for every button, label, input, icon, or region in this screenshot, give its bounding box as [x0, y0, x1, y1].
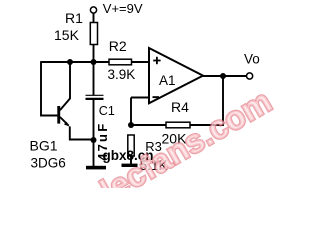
capacitor C1 plate 2	[86, 98, 104, 100]
svg-text:A1: A1	[159, 73, 176, 88]
resistor R3	[128, 135, 134, 156]
svg-text:V+=9V: V+=9V	[103, 1, 143, 16]
transistor BG1 emitter with arrow	[60, 117, 68, 125]
svg-text:R1: R1	[65, 10, 83, 26]
wire R1 to bus	[93, 45, 95, 63]
svg-text:Vo: Vo	[244, 51, 260, 66]
op-amp A1	[149, 48, 203, 103]
svg-text:C1: C1	[99, 104, 115, 118]
wire V+ to R1	[93, 13, 95, 22]
ground G1	[86, 166, 106, 170]
wire op-amp output	[203, 75, 246, 77]
node dot output	[220, 73, 226, 79]
ground G2	[122, 164, 138, 167]
node dot emitter/C1	[91, 137, 97, 143]
minus marker	[153, 96, 160, 98]
wire R3 to ground	[130, 156, 132, 164]
node dot feedback	[128, 122, 134, 128]
svg-text:R2: R2	[109, 38, 127, 54]
wire -input vertical	[130, 98, 132, 126]
svg-text:R4: R4	[171, 99, 189, 115]
wire R2 to op-amp +input	[132, 61, 150, 63]
power terminal V+	[90, 7, 96, 13]
resistor R2	[109, 59, 132, 65]
plus marker	[153, 57, 160, 64]
wire collector branch to BG1	[60, 62, 70, 110]
terminal Vo	[247, 73, 253, 79]
svg-text:3DG6: 3DG6	[31, 155, 66, 170]
wire base branch vertical	[41, 62, 58, 116]
wire emitter to node	[70, 127, 94, 140]
node dot R1/C1 branch	[91, 59, 97, 65]
wire top bus	[40, 61, 109, 63]
svg-text:15K: 15K	[54, 27, 80, 43]
wire R4 to output	[190, 76, 223, 125]
wire C1 to ground	[93, 99, 95, 166]
node dot collector branch	[67, 59, 73, 65]
capacitor C1 plate 1	[86, 94, 104, 96]
svg-text:BG1: BG1	[30, 138, 58, 154]
resistor R1	[90, 23, 97, 45]
wire -input horizontal	[131, 97, 149, 99]
wire node to R4	[131, 124, 166, 126]
svg-text:3.9K: 3.9K	[108, 67, 136, 82]
transistor BG1 base bar	[57, 106, 60, 124]
wire bus to C1	[93, 62, 95, 95]
resistor R4	[166, 122, 190, 128]
